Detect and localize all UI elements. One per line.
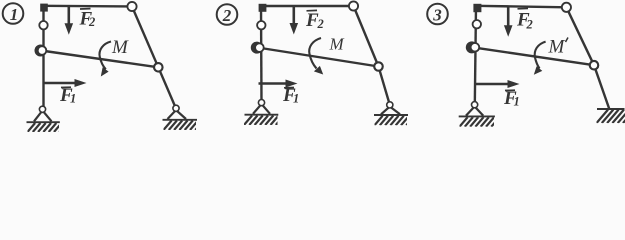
- svg-text:2: 2: [317, 17, 324, 31]
- svg-text:2: 2: [222, 6, 232, 25]
- svg-text:M: M: [329, 35, 345, 54]
- svg-text:M: M: [111, 37, 129, 58]
- svg-text:3: 3: [432, 6, 442, 25]
- svg-text:1: 1: [10, 5, 18, 24]
- svg-text:2: 2: [526, 18, 533, 32]
- svg-text:1: 1: [514, 95, 520, 109]
- svg-text:1: 1: [70, 92, 76, 106]
- svg-text:1: 1: [293, 92, 299, 106]
- svg-text:2: 2: [88, 15, 95, 29]
- svg-text:M: M: [548, 37, 566, 58]
